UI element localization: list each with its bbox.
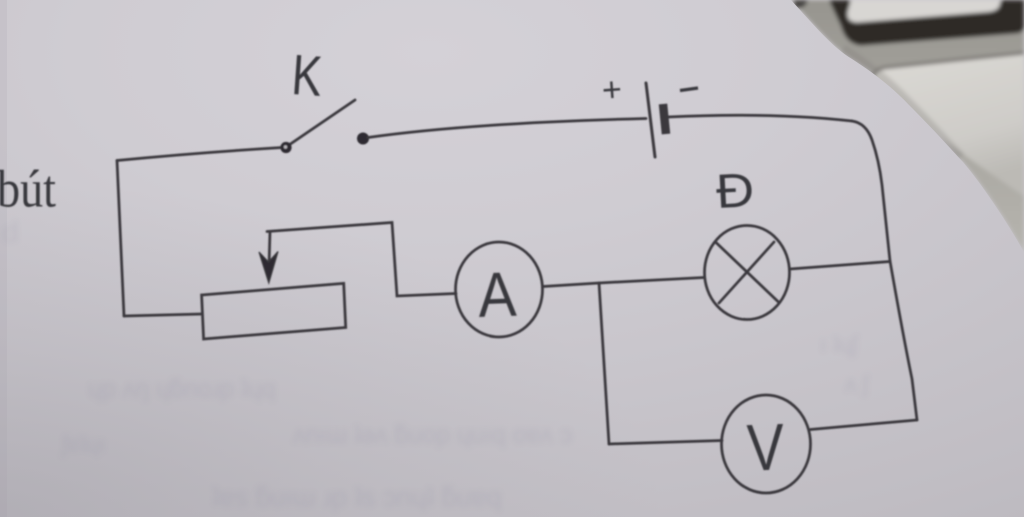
switch K lever arm xyxy=(286,100,355,147)
voltmeter V circle xyxy=(722,395,811,493)
wire: bottom-left to rheostat xyxy=(124,314,202,316)
ammeter A circle xyxy=(456,242,543,337)
svg-text:+: + xyxy=(601,70,623,109)
text but xyxy=(0,159,56,218)
wire: battery to top-right corner xyxy=(668,115,852,121)
wire: ammeter right to lamp left through junction node xyxy=(543,278,704,287)
svg-text:V: V xyxy=(746,409,786,484)
svg-text:ʌnıɯ ʇǝʌ ƃuop ɥuıq oɐʌ ɔ: ʌnıɯ ʇǝʌ ƃuop ɥuıq oɐʌ ɔ xyxy=(293,421,572,449)
svg-text:ı ʇɥʃ: ı ʇɥʃ xyxy=(820,331,859,357)
keyboard dark key face xyxy=(847,0,1001,23)
svg-text:A: A xyxy=(477,259,517,330)
resistor R (rheostat) body xyxy=(202,283,346,339)
wire: bottom to voltmeter left xyxy=(609,441,722,445)
lamp X diagonal 2 xyxy=(719,242,774,303)
left page edge shading xyxy=(0,0,7,517)
switch right contact dot xyxy=(357,133,369,145)
rheostat R slider arrow xyxy=(259,232,278,284)
circuit drawing xyxy=(117,83,917,493)
battery polarity label minus xyxy=(680,88,698,91)
wire: switch left dot to top-left corner xyxy=(117,148,282,161)
svg-text:K: K xyxy=(290,43,324,109)
battery negative plate (short thick) xyxy=(663,104,666,134)
faint show-through ghosts xyxy=(2,216,870,512)
svg-text:ɥp ʌŋ ɥƃnoɹp ʇɥq: ɥp ʌŋ ɥƃnoɹp ʇɥq xyxy=(88,375,276,403)
wire: right side vertical (slanted) xyxy=(852,121,917,420)
lamp X diagonal 1 xyxy=(716,243,779,303)
keyboard photo corner (top right) xyxy=(791,0,1024,252)
svg-text:d: d xyxy=(2,216,19,249)
wire: voltmeter right to bottom-right corner xyxy=(811,420,918,430)
wire: switch to battery xyxy=(368,119,646,138)
svg-text:ʇɐs ƃuıɯ ɹp ʇs ɔnɥʇ ƃuɐq: ʇɐs ƃuıɯ ɹp ʇs ɔnɥʇ ƃuɐq xyxy=(212,482,502,512)
keyboard shadow along paper edge xyxy=(842,50,960,158)
svg-text:Đ: Đ xyxy=(715,164,756,219)
wire: arrow top to ammeter (step) xyxy=(267,223,456,297)
wire: left vertical xyxy=(117,161,124,317)
svg-text:ʃɐʇɥı: ʃɐʇɥı xyxy=(60,431,105,457)
keyboard second key border xyxy=(871,53,1024,82)
wire: lamp right to right-side wire xyxy=(790,262,890,270)
switch left contact dot xyxy=(280,142,291,153)
wire: junction vertical down xyxy=(599,283,609,444)
battery positive plate (long) xyxy=(646,83,655,157)
keyboard dark key frame xyxy=(829,0,1024,46)
svg-text:bút: bút xyxy=(0,159,56,218)
svg-text:ʌ ʃ: ʌ ʃ xyxy=(845,371,870,397)
keyboard second key face xyxy=(873,54,1024,196)
keyboard small dark wedge top-left xyxy=(794,0,808,8)
lamp Đ bulb circle xyxy=(705,226,790,320)
